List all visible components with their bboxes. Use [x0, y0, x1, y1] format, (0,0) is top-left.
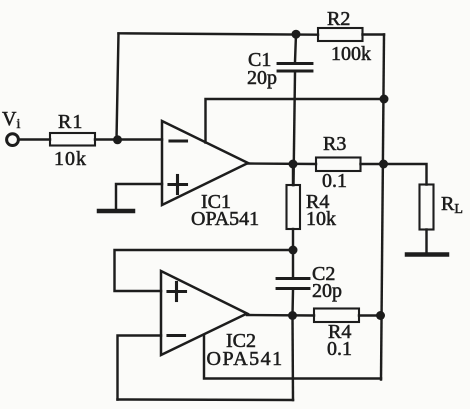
IC1 inverting input pin (-) — [170, 139, 187, 142]
node D: IC1 output / R4 junction — [289, 160, 298, 169]
svg-text:100k: 100k — [331, 43, 371, 65]
node A: R1 / feedback junction — [113, 135, 122, 144]
svg-text:R3: R3 — [323, 133, 346, 155]
IC2 non-inverting input pin (+) — [168, 283, 186, 301]
wire load-node long vertical — [381, 35, 384, 380]
wire R1 to IC1 inverting input — [95, 138, 162, 140]
op-amp U2 (IC2) — [161, 271, 247, 355]
svg-text:0.1: 0.1 — [322, 170, 347, 192]
wire C2 top lead — [292, 250, 294, 277]
svg-text:RL: RL — [441, 193, 463, 217]
node F: R4 / C2 / IC2 junction — [289, 246, 298, 255]
wire IC2 inverting input — [118, 336, 162, 400]
op-amp U1 (IC1) — [162, 121, 248, 205]
wire feedback top horizontal — [119, 33, 319, 34]
resistor R1 — [50, 133, 95, 146]
wire R4 bottom lead — [292, 229, 294, 250]
wire C1 bottom lead to R4 — [294, 73, 296, 186]
wire IC2 sense line to bottom — [204, 336, 381, 379]
capacitor C1 — [278, 64, 312, 72]
svg-text:20p: 20p — [312, 280, 342, 302]
svg-text:OPA541: OPA541 — [191, 208, 259, 230]
svg-text:0.1: 0.1 — [327, 338, 352, 360]
resistor R4 (10k) — [287, 185, 301, 229]
wire R4 top lead — [292, 164, 294, 185]
IC2 inverting input pin (-) — [168, 334, 185, 337]
svg-text:R1: R1 — [58, 111, 83, 133]
wire IC1 sense line to load node — [206, 99, 385, 143]
resistor R4b (0.1) — [314, 309, 359, 323]
resistor R2 — [318, 28, 363, 41]
wire R4b to load vertical — [359, 314, 381, 316]
node B: C1 / R2 junction — [292, 30, 301, 39]
node C: sense / load vertical junction — [380, 95, 389, 104]
wire C1 top lead — [295, 34, 296, 62]
wire IC1 + input to ground — [116, 184, 162, 209]
ground (RL) — [407, 252, 447, 257]
wire IC2 output — [247, 314, 314, 317]
svg-text:20p: 20p — [247, 67, 277, 89]
svg-text:10k: 10k — [54, 148, 87, 170]
IC1 non-inverting input pin (+) — [169, 176, 187, 194]
wire RL to ground — [425, 230, 427, 253]
input terminal Vi — [7, 134, 19, 146]
wire C2 bottom lead — [291, 290, 294, 316]
svg-text:OPA541: OPA541 — [207, 348, 284, 370]
node G: C2 / IC2 output junction — [288, 311, 297, 320]
wire R2 to load-node vertical — [363, 33, 385, 35]
node H: R4b / load vertical junction — [376, 311, 385, 320]
resistor RL — [420, 185, 434, 230]
capacitor C2 — [277, 279, 309, 289]
wire IC1 output — [248, 162, 316, 165]
svg-text:Vi: Vi — [2, 108, 20, 132]
wire R3 to load node — [361, 163, 384, 165]
svg-text:10k: 10k — [306, 208, 336, 230]
ground (IC1 non-inverting input) — [99, 209, 133, 214]
wire load node to RL — [384, 164, 427, 185]
wire feedback left vertical — [117, 34, 119, 140]
wire bottom feedback vertical to node G — [291, 316, 294, 401]
wire node F to IC2 non-inverting input — [115, 250, 294, 291]
resistor R3 — [316, 158, 361, 172]
node E: R3 / load junction — [379, 160, 388, 169]
wire input terminal to R1 — [19, 138, 51, 140]
wire bottom feedback horizontal — [118, 398, 294, 401]
svg-text:R2: R2 — [327, 8, 350, 30]
